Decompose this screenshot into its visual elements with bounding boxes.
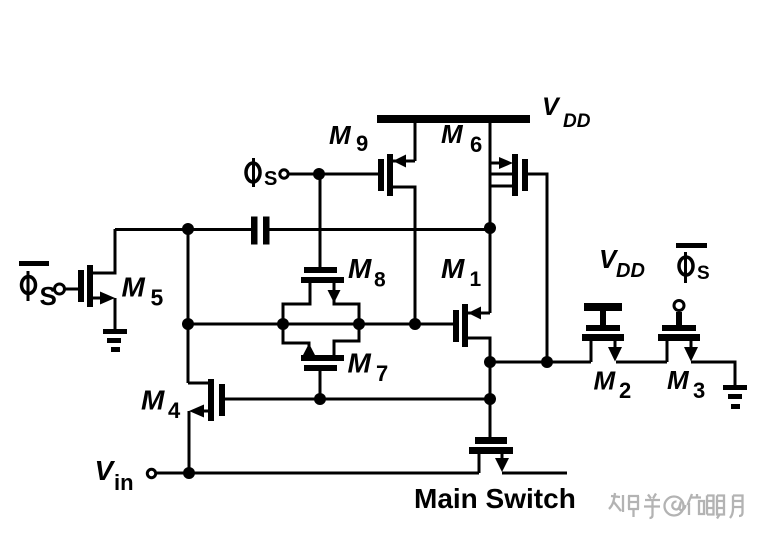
svg-text:M: M <box>348 253 372 284</box>
svg-text:3: 3 <box>693 378 705 403</box>
svg-text:S: S <box>264 168 277 190</box>
svg-text:8: 8 <box>374 269 386 292</box>
svg-text:in: in <box>114 470 134 495</box>
svg-text:M: M <box>594 366 617 396</box>
svg-text:M: M <box>122 272 146 303</box>
svg-text:S: S <box>697 263 710 284</box>
svg-text:M: M <box>667 365 690 395</box>
svg-text:M: M <box>329 120 352 150</box>
svg-text:9: 9 <box>356 131 368 156</box>
svg-text:6: 6 <box>470 132 482 157</box>
svg-text:M: M <box>441 253 465 284</box>
svg-text:Main Switch: Main Switch <box>414 483 576 514</box>
svg-text:M: M <box>141 385 165 416</box>
svg-text:5: 5 <box>151 285 164 311</box>
svg-text:1: 1 <box>470 268 482 291</box>
svg-text:7: 7 <box>376 361 388 386</box>
svg-text:V: V <box>542 93 561 121</box>
svg-text:4: 4 <box>168 398 181 423</box>
svg-text:S: S <box>40 281 57 311</box>
svg-text:V: V <box>95 455 116 486</box>
svg-text:M: M <box>441 119 464 149</box>
svg-text:M: M <box>348 348 372 379</box>
svg-text:DD: DD <box>616 260 645 282</box>
svg-text:2: 2 <box>619 378 631 403</box>
svg-text:DD: DD <box>563 111 591 132</box>
